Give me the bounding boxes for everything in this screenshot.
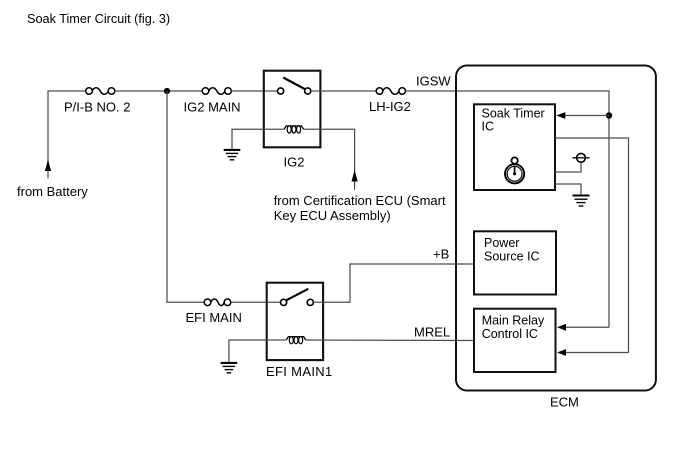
wire IGSW net — [406, 91, 610, 327]
svg-text:LH-IG2: LH-IG2 — [369, 99, 411, 114]
power symbol — [573, 153, 590, 162]
wire EFI MAIN1 coil to ground — [229, 340, 286, 362]
wire IG2 coil to ground — [232, 129, 284, 149]
Main Relay Control IC box — [474, 309, 556, 372]
fuse IG2 MAIN — [202, 88, 231, 95]
svg-text:MREL: MREL — [414, 324, 450, 339]
svg-text:EFI MAIN: EFI MAIN — [186, 310, 242, 325]
ground IG2 coil — [224, 150, 241, 160]
wire IG2 coil to certification ECU — [304, 129, 358, 189]
label from Certification ECU (Smart Key ECU Assembly) — [274, 193, 446, 223]
svg-text:ECM: ECM — [550, 395, 579, 410]
svg-text:Control IC: Control IC — [482, 327, 538, 341]
junction node A — [164, 88, 170, 94]
wire arrow into Soak Timer IC — [556, 112, 609, 119]
svg-text:IG2: IG2 — [284, 154, 305, 169]
fuse P/I-B NO. 2 — [86, 88, 115, 95]
stopwatch icon — [505, 157, 524, 183]
svg-text:from Certification ECU (Smart: from Certification ECU (Smart — [274, 193, 446, 208]
wire Soak Timer IC to ground — [555, 184, 581, 195]
wire Soak Timer IC to power symbol — [555, 162, 581, 172]
ECM box — [456, 66, 656, 391]
svg-text:Soak Timer Circuit (fig. 3): Soak Timer Circuit (fig. 3) — [27, 12, 170, 26]
junction node IGSW branch — [606, 112, 612, 118]
svg-text:Power: Power — [484, 236, 519, 250]
wire +B net — [313, 264, 474, 302]
wire Soak Timer IC feedback to node B — [555, 138, 629, 353]
relay EFI MAIN1 switch — [281, 289, 314, 306]
wire EFI MAIN riser — [167, 91, 204, 302]
label Power Source IC — [484, 236, 540, 263]
svg-text:IG2 MAIN: IG2 MAIN — [184, 100, 241, 115]
wire arrow IGSW to Main Relay Control IC — [557, 324, 609, 331]
svg-text:from Battery: from Battery — [17, 184, 88, 199]
relay IG2 box — [264, 71, 321, 148]
op-amp U1 Soak Timer IC box — [474, 104, 555, 190]
Power Source IC box — [474, 231, 556, 294]
svg-text:IC: IC — [482, 120, 495, 134]
relay IG2 coil — [284, 126, 304, 133]
relay EFI MAIN1 box — [267, 283, 323, 360]
fuse LH-IG2 — [376, 88, 405, 95]
svg-text:Key ECU Assembly): Key ECU Assembly) — [274, 208, 391, 223]
wire MREL net — [306, 339, 474, 342]
ground Soak Timer IC — [573, 196, 590, 207]
wire relay IG2 to fuse LH-IG2 — [311, 90, 376, 92]
label Soak Timer IC — [482, 106, 545, 133]
wire fuse1 to fuse2 — [115, 90, 202, 92]
svg-text:Soak Timer: Soak Timer — [482, 106, 545, 120]
relay IG2 switch — [278, 78, 311, 95]
label Main Relay Control IC — [482, 314, 545, 341]
svg-text:EFI MAIN1: EFI MAIN1 — [266, 364, 333, 379]
svg-text:Main Relay: Main Relay — [482, 314, 545, 328]
wire fuse2 to relay IG2 contact — [231, 90, 277, 92]
wire fuse EFI MAIN to relay — [231, 301, 281, 303]
relay EFI MAIN1 coil — [286, 337, 306, 344]
fuse EFI MAIN — [204, 299, 231, 306]
svg-text:IGSW: IGSW — [416, 74, 451, 89]
svg-text:+B: +B — [433, 247, 449, 262]
wire battery riser — [45, 91, 86, 179]
svg-text:P/I-B NO. 2: P/I-B NO. 2 — [64, 100, 130, 115]
svg-text:Source IC: Source IC — [484, 249, 540, 263]
wire arrow node B to Main Relay Control IC — [557, 349, 629, 356]
ground EFI MAIN1 coil — [221, 363, 238, 373]
